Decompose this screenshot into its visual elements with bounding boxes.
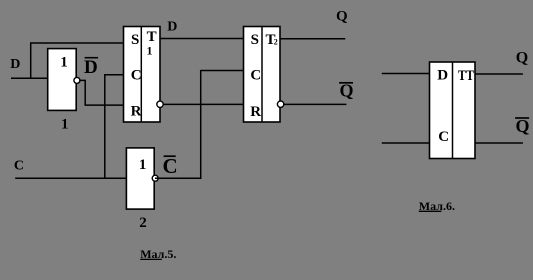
wire D input horizontal: [11, 77, 48, 79]
wire to C input of T1: [105, 74, 124, 76]
svg-text:1: 1: [147, 44, 153, 58]
wire D input of flip-flop: [382, 73, 430, 75]
svg-text:C: C: [131, 68, 142, 84]
svg-text:D: D: [84, 57, 98, 78]
inverter 1 output bubble: [74, 77, 80, 83]
svg-text:2: 2: [274, 37, 278, 46]
wire Q-bar output: [284, 103, 347, 105]
T1 label T1: [147, 29, 157, 58]
wire C vertical branch: [104, 74, 106, 179]
wire D branch vertical: [30, 43, 32, 80]
svg-text:1: 1: [61, 116, 69, 132]
svg-text:D: D: [10, 57, 20, 72]
svg-text:R: R: [250, 104, 261, 120]
svg-text:D: D: [167, 19, 177, 34]
svg-text:2: 2: [139, 215, 147, 231]
wire C input horizontal: [15, 177, 126, 179]
wire D-bar to R input of T1: [79, 80, 124, 105]
wire C-bar vertical: [200, 70, 202, 179]
T2 label T2: [266, 32, 278, 48]
wire to C input of T2: [201, 70, 244, 72]
svg-text:S: S: [251, 32, 259, 48]
svg-text:1: 1: [139, 157, 147, 173]
svg-text:TT: TT: [458, 68, 474, 84]
latch T1 body: [124, 27, 161, 123]
caption Mal.6: [419, 199, 455, 213]
wire to S input of T1: [30, 42, 124, 44]
svg-text:D: D: [437, 67, 448, 83]
wire Q output of flip-flop: [475, 73, 523, 75]
wire C-bar horizontal: [155, 177, 201, 179]
latch T2 body: [244, 27, 281, 123]
D flip-flop body (Mal.6): [430, 62, 476, 159]
node Q-bar label: [339, 80, 353, 100]
caption Mal.5: [140, 247, 176, 261]
svg-text:Q: Q: [516, 50, 528, 67]
T2 output bubble: [277, 101, 283, 107]
wire Q output: [281, 38, 346, 40]
svg-text:Q: Q: [336, 9, 348, 25]
svg-text:1: 1: [60, 55, 68, 71]
wire Q1-bar to R input of T2: [163, 103, 244, 105]
T1 output bubble: [157, 101, 163, 107]
wire C input of flip-flop: [382, 142, 430, 144]
node D-bar label: [84, 57, 98, 78]
svg-text:C: C: [250, 68, 261, 84]
wire Q1 to S input of T2: [160, 38, 244, 40]
inverter 2: [126, 148, 154, 209]
inverter 1: [48, 49, 76, 111]
svg-text:C: C: [163, 154, 178, 178]
wire Q-bar output of flip-flop: [475, 142, 523, 144]
svg-text:C: C: [14, 159, 24, 174]
svg-text:R: R: [131, 104, 142, 120]
svg-text:C: C: [438, 129, 449, 145]
node C-bar label: [163, 154, 178, 178]
node Q-bar label flip-flop: [515, 116, 529, 136]
svg-text:S: S: [131, 32, 139, 48]
inverter 2 output bubble: [152, 175, 158, 181]
